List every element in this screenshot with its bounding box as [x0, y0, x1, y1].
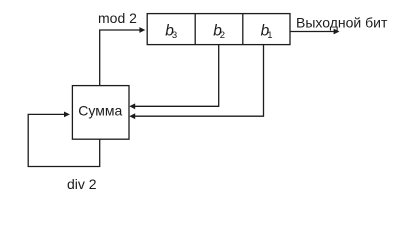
svg-text:mod 2: mod 2	[98, 10, 137, 26]
svg-text:3: 3	[172, 30, 177, 41]
arrowhead output	[334, 29, 340, 35]
register cell divider 1	[194, 14, 196, 45]
wire div2 loop: sum bottom around to sum left input	[28, 114, 100, 166]
wire feedback from b1 to sum	[135, 45, 264, 117]
svg-text:1: 1	[267, 30, 272, 41]
svg-text:div 2: div 2	[67, 176, 97, 192]
wire output bit	[290, 31, 334, 33]
arrowhead feedback b2	[129, 103, 135, 109]
wire mod2: sum top to register input	[100, 30, 140, 86]
svg-text:Сумма: Сумма	[78, 102, 122, 118]
svg-text:2: 2	[220, 30, 225, 41]
shift register box	[147, 14, 290, 45]
arrowhead feedback b1	[129, 113, 135, 119]
sum block	[72, 86, 129, 140]
arrowhead into register	[139, 27, 145, 33]
wire feedback from b2 to sum	[135, 45, 219, 107]
register cell divider 2	[242, 14, 244, 45]
svg-text:Выходной бит: Выходной бит	[296, 15, 388, 31]
arrowhead into sum left	[64, 112, 70, 118]
